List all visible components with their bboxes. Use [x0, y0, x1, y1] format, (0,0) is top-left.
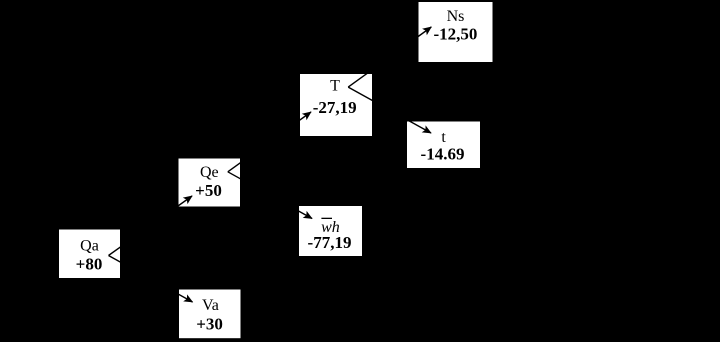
svg-text:-14.69: -14.69	[421, 145, 465, 164]
box T	[300, 74, 372, 136]
arrowhead Qe to T	[302, 112, 312, 121]
arrowhead Qa to Va	[183, 294, 193, 302]
overbar of wh	[321, 218, 332, 219]
arrowhead Qe to wh	[303, 211, 313, 219]
svg-text:Qe: Qe	[200, 164, 219, 181]
wire Qa to Qe	[109, 196, 193, 256]
svg-text:Qa: Qa	[80, 238, 99, 255]
svg-text:+50: +50	[195, 181, 222, 200]
box Va	[179, 290, 241, 339]
svg-text:+80: +80	[76, 255, 103, 274]
svg-text:-77,19: -77,19	[308, 233, 352, 252]
box Qa	[59, 230, 120, 279]
svg-text:t: t	[441, 129, 446, 146]
arrowhead T to t	[422, 125, 432, 133]
svg-text:-12,50: -12,50	[433, 25, 477, 44]
svg-text:Va: Va	[202, 297, 219, 314]
wire T to t	[348, 87, 431, 133]
wire Qe to wh	[228, 172, 312, 219]
wire Qe to T	[228, 112, 311, 172]
svg-text:-27,19: -27,19	[313, 98, 357, 117]
box t	[407, 122, 480, 169]
box wh	[299, 206, 362, 256]
wire T to Ns	[348, 27, 431, 87]
arrowhead Qa to Qe	[183, 196, 193, 205]
arrowhead T to Ns	[422, 27, 432, 36]
box Ns	[419, 2, 493, 62]
svg-text:T: T	[330, 78, 340, 95]
svg-text:+30: +30	[196, 315, 223, 334]
wire Qa to Va	[109, 256, 193, 303]
svg-text:Ns: Ns	[447, 8, 465, 25]
box Qe	[179, 159, 241, 207]
